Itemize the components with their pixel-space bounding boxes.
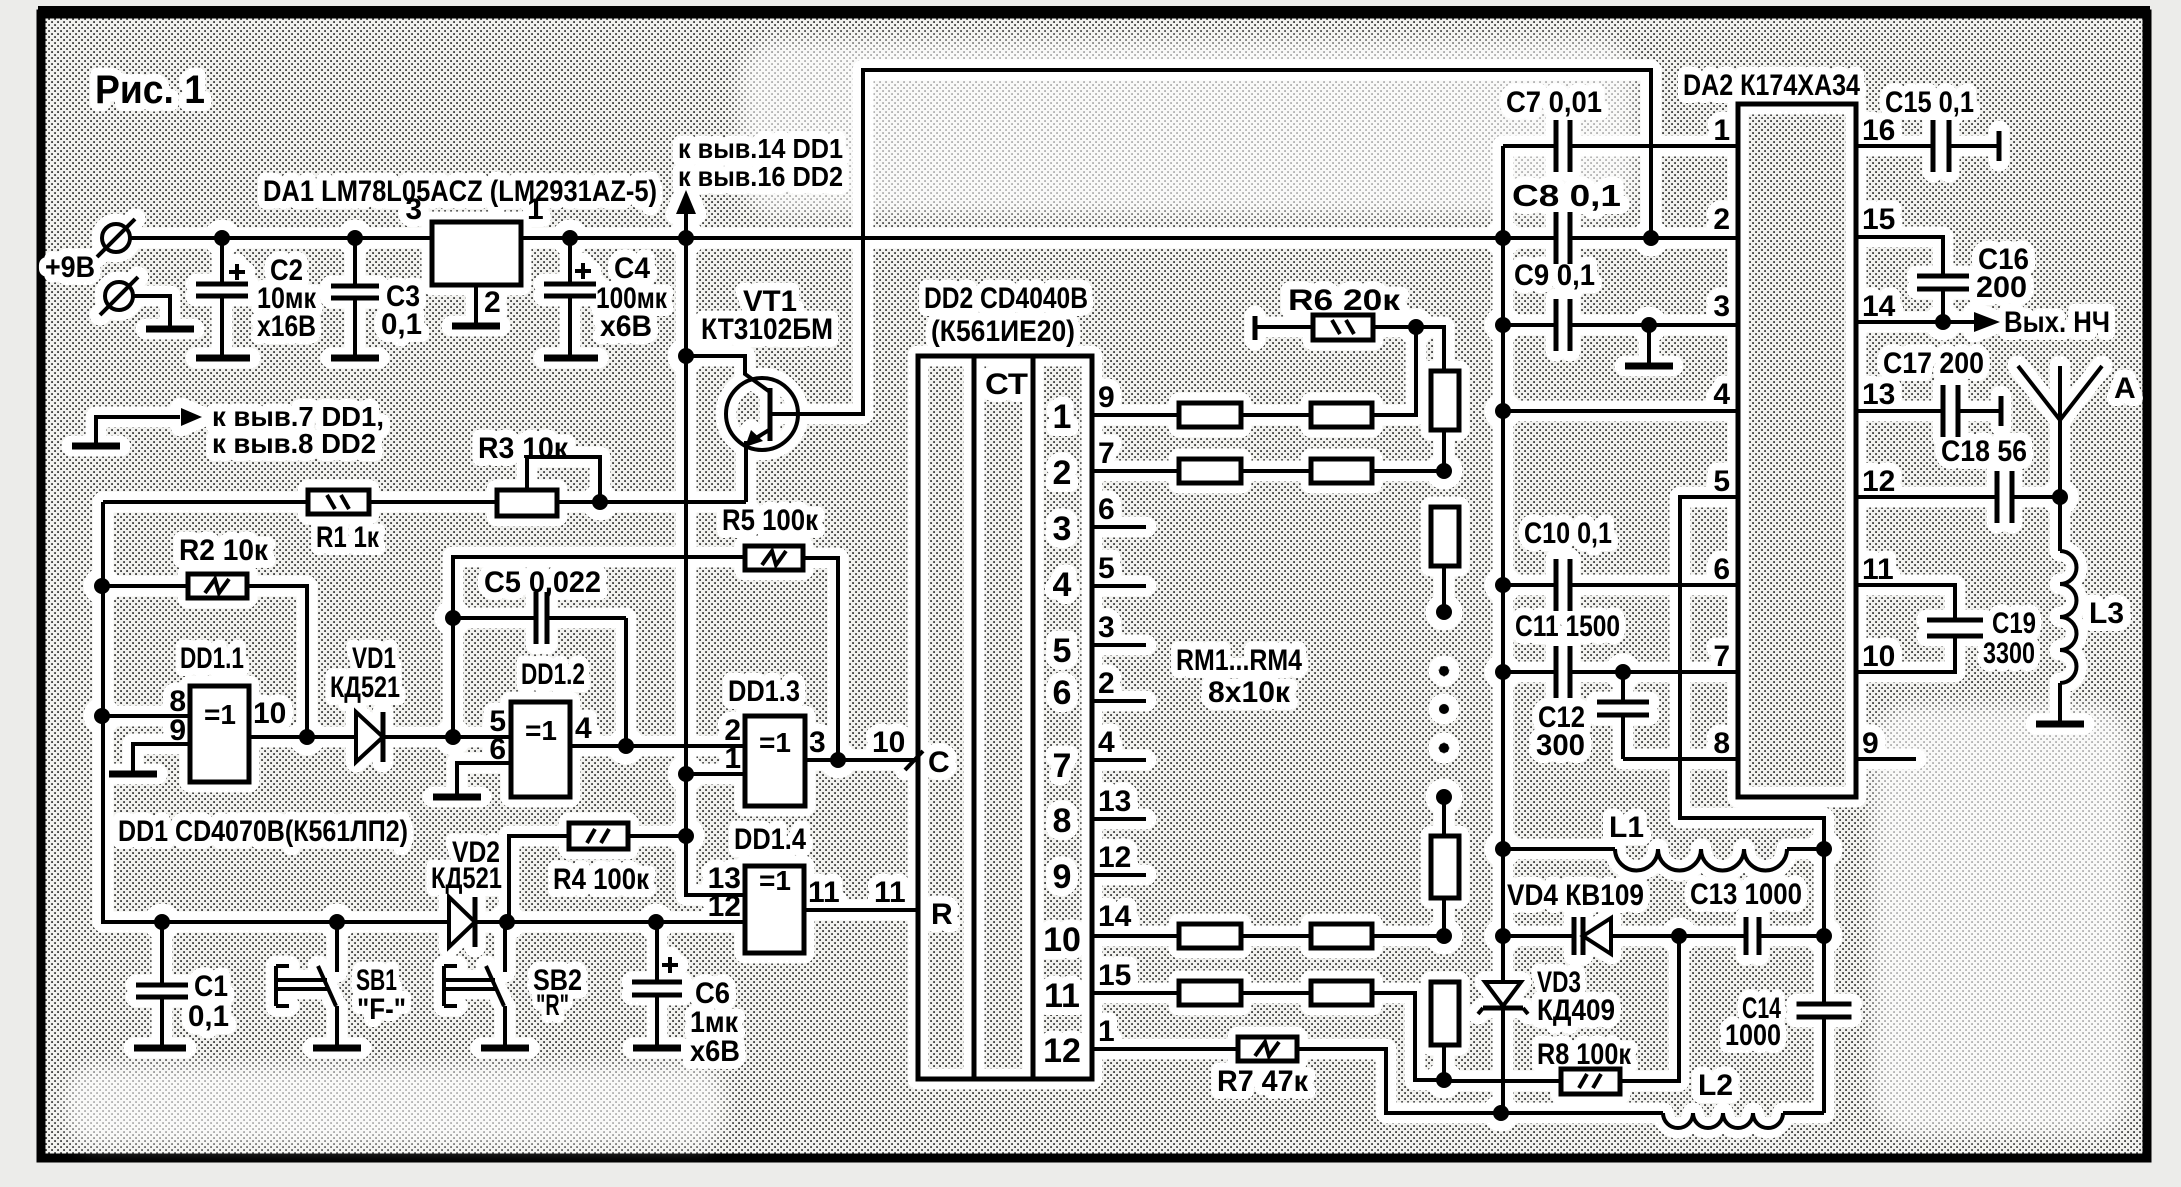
resistor R2 bbox=[188, 574, 247, 598]
svg-text:к выв.8 DD2: к выв.8 DD2 bbox=[212, 428, 376, 459]
wire DD1.1 pin8 bbox=[102, 714, 190, 718]
wire DA2 pin8 row bbox=[1623, 757, 1738, 761]
wire R5 to DD1.3 output bbox=[803, 558, 838, 760]
capacitor C15 bbox=[1931, 120, 1936, 172]
label VD1 bbox=[330, 642, 400, 704]
svg-text:11: 11 bbox=[808, 876, 840, 909]
svg-text:DA1 LM78L05ACZ (LM2931AZ-5): DA1 LM78L05ACZ (LM2931AZ-5) bbox=[263, 175, 657, 208]
capacitor C10 bbox=[1554, 559, 1559, 611]
svg-text:DD1.4: DD1.4 bbox=[734, 823, 806, 856]
svg-text:12: 12 bbox=[1043, 1032, 1081, 1070]
svg-text:13: 13 bbox=[1098, 785, 1131, 818]
ground bbox=[196, 355, 250, 362]
svg-text:=1: =1 bbox=[759, 865, 791, 896]
capacitor C7 bbox=[1554, 120, 1559, 172]
ground bbox=[331, 355, 379, 362]
antenna A bbox=[2058, 366, 2062, 497]
wire DA2 pin12 row bbox=[1856, 495, 1997, 499]
wire Q stub bbox=[1092, 584, 1146, 588]
label C14 value bbox=[1725, 992, 1781, 1052]
svg-text:3300: 3300 bbox=[1983, 637, 2035, 670]
svg-text:13: 13 bbox=[1862, 378, 1895, 411]
wire chain bottom bbox=[1442, 1045, 1446, 1080]
wire varicap row left bbox=[1503, 934, 1574, 938]
svg-text:C13 1000: C13 1000 bbox=[1690, 878, 1802, 911]
node output arrow bbox=[1974, 312, 2000, 332]
label C6 value bbox=[690, 977, 740, 1068]
connector +9V pin bbox=[97, 219, 135, 257]
svg-text:0,1: 0,1 bbox=[381, 308, 422, 341]
ground bbox=[146, 326, 194, 333]
ground bbox=[313, 1045, 361, 1052]
svg-text:2: 2 bbox=[484, 286, 501, 319]
wire DD1.3 output to DD2 clock bbox=[805, 758, 918, 762]
svg-text:к выв.14 DD1: к выв.14 DD1 bbox=[678, 133, 843, 164]
wire pin3 ground stub bbox=[1647, 325, 1651, 364]
capacitor C17 bbox=[1941, 385, 1946, 437]
svg-text:8х10к: 8х10к bbox=[1208, 676, 1291, 709]
ground bbox=[1625, 363, 1673, 370]
svg-text:1: 1 bbox=[724, 742, 741, 775]
node C15 terminal bbox=[1997, 131, 2002, 161]
label VD2 bbox=[431, 836, 502, 895]
svg-text:1: 1 bbox=[1098, 1015, 1115, 1048]
svg-text:10: 10 bbox=[1043, 921, 1081, 959]
svg-text:C17 200: C17 200 bbox=[1883, 347, 1984, 380]
svg-text:R7 47к: R7 47к bbox=[1217, 1065, 1309, 1098]
wire VD4 to C13 bbox=[1611, 934, 1746, 938]
label C2 value bbox=[257, 254, 317, 343]
svg-text:КД409: КД409 bbox=[1537, 994, 1615, 1027]
node ellipsis bbox=[1439, 666, 1449, 676]
ground bbox=[544, 355, 598, 362]
svg-text:С4: С4 bbox=[614, 252, 650, 285]
label SB2 bbox=[533, 964, 582, 1022]
resistor RM1.2 bbox=[1311, 403, 1372, 427]
wire DD1.1 output bbox=[249, 735, 356, 739]
wire Q10 row bbox=[1092, 934, 1179, 938]
svg-text:11: 11 bbox=[1044, 977, 1080, 1015]
transistor VT1 bbox=[686, 356, 798, 450]
svg-text:11: 11 bbox=[874, 876, 906, 909]
capacitor C8 bbox=[1554, 212, 1559, 264]
wire chain bbox=[1442, 898, 1446, 936]
svg-text:14: 14 bbox=[1862, 290, 1896, 323]
resistor R8 bbox=[1561, 1069, 1620, 1094]
svg-text:7: 7 bbox=[1713, 640, 1730, 673]
wire C13 to vertical bbox=[1759, 934, 1824, 938]
wire Q11 row bbox=[1092, 991, 1179, 995]
ground bbox=[633, 1045, 681, 1052]
svg-text:RM1...RM4: RM1...RM4 bbox=[1176, 644, 1302, 677]
ground bbox=[72, 443, 120, 450]
wire DA2 pin10/11 C19 branch bbox=[1856, 636, 1955, 672]
svg-text:10: 10 bbox=[872, 726, 905, 759]
svg-text:C9 0,1: C9 0,1 bbox=[1514, 259, 1595, 292]
wire VT1 base to DA2 pin2 node bbox=[770, 70, 1651, 414]
svg-text:9: 9 bbox=[1862, 727, 1879, 760]
wire Q stub bbox=[1092, 643, 1146, 647]
label VD3 value bbox=[1537, 966, 1615, 1027]
svg-text:DD1.3: DD1.3 bbox=[728, 675, 800, 708]
svg-text:12: 12 bbox=[1862, 465, 1895, 498]
svg-text:8: 8 bbox=[1053, 802, 1072, 840]
trimmer R3 bbox=[497, 490, 557, 516]
wire common tap bbox=[96, 417, 180, 444]
svg-text:DA2 К174ХА34: DA2 К174ХА34 bbox=[1683, 69, 1860, 102]
svg-text:14: 14 bbox=[1098, 900, 1132, 933]
svg-text:х16В: х16В bbox=[257, 310, 316, 343]
svg-text:"R": "R" bbox=[536, 989, 569, 1022]
wire DA2 pin13 row bbox=[1856, 409, 1943, 413]
svg-text:R5 100к: R5 100к bbox=[722, 504, 819, 537]
svg-text:C: C bbox=[928, 746, 950, 779]
svg-text:4: 4 bbox=[1713, 378, 1730, 411]
svg-text:2: 2 bbox=[1098, 667, 1115, 700]
svg-text:12: 12 bbox=[708, 890, 741, 923]
resistor RM3.2 bbox=[1311, 924, 1372, 948]
svg-text:4: 4 bbox=[575, 712, 592, 745]
label C19 value bbox=[1983, 607, 2036, 670]
connector ground pin bbox=[100, 277, 138, 315]
wire DD1.4 output to DD2 R bbox=[804, 908, 918, 912]
svg-text:С19: С19 bbox=[1992, 607, 2036, 640]
svg-text:3: 3 bbox=[809, 726, 826, 759]
svg-text:5: 5 bbox=[1713, 465, 1730, 498]
svg-text:(К561ИЕ20): (К561ИЕ20) bbox=[931, 315, 1075, 348]
resistor R6 bbox=[1253, 316, 1258, 340]
inductor L2 bbox=[1501, 1111, 1663, 1115]
wire R8 row bbox=[1444, 1079, 1561, 1083]
wire DA2 pin7 row bbox=[1503, 670, 1556, 674]
svg-text:VD4 КВ109: VD4 КВ109 bbox=[1507, 879, 1644, 912]
wire R4 right bbox=[628, 834, 686, 838]
svg-text:R3 10к: R3 10к bbox=[478, 432, 569, 465]
capacitor C3 bbox=[331, 238, 379, 356]
svg-text:5: 5 bbox=[1053, 632, 1072, 670]
svg-text:4: 4 bbox=[1098, 726, 1115, 759]
ground bbox=[2036, 721, 2084, 728]
capacitor C12 bbox=[1621, 672, 1625, 702]
svg-text:КД521: КД521 bbox=[431, 862, 502, 895]
wire R8 to C13 node bbox=[1620, 936, 1679, 1081]
wire C-bank vertical bbox=[1501, 146, 1505, 982]
capacitor C16 bbox=[1917, 274, 1969, 279]
resistor RM2.1 bbox=[1179, 459, 1241, 483]
svg-text:A: A bbox=[2114, 372, 2136, 405]
resistor R1 bbox=[308, 490, 369, 514]
svg-text:8: 8 bbox=[1713, 727, 1730, 760]
svg-text:C11 1500: C11 1500 bbox=[1515, 610, 1620, 643]
inductor L3 bbox=[2058, 497, 2062, 551]
XOR gate DD1.2 bbox=[511, 702, 570, 797]
wire DA2 pin4 row bbox=[1503, 409, 1738, 413]
svg-text:L3: L3 bbox=[2089, 597, 2124, 630]
svg-text:1: 1 bbox=[1053, 398, 1072, 436]
capacitor C19 bbox=[1927, 618, 1983, 623]
node arrow bbox=[181, 408, 202, 426]
svg-text:DD2 CD4040В: DD2 CD4040В bbox=[924, 282, 1088, 315]
wire DA1 pin 2 bbox=[474, 285, 478, 324]
wire Q stub bbox=[1092, 817, 1146, 821]
label VT1 bbox=[701, 285, 833, 346]
wire Q1 row bbox=[1092, 413, 1179, 417]
svg-text:х6В: х6В bbox=[690, 1035, 740, 1068]
resistor RM chain 4 bbox=[1431, 982, 1459, 1045]
resistor RM chain 3 bbox=[1431, 836, 1459, 898]
button SB1 bbox=[276, 922, 337, 1046]
svg-text:12: 12 bbox=[1098, 841, 1131, 874]
label C12 value bbox=[1536, 701, 1585, 762]
svg-text:6: 6 bbox=[1713, 553, 1730, 586]
node rail junctions bbox=[214, 230, 230, 246]
wire Q2 row bbox=[1092, 469, 1179, 473]
svg-text:11: 11 bbox=[1862, 553, 1894, 586]
wire Q stub bbox=[1092, 873, 1146, 877]
svg-text:C15 0,1: C15 0,1 bbox=[1885, 86, 1974, 119]
wire DA2 pin1 row bbox=[1503, 144, 1556, 148]
wire chain start bbox=[1436, 789, 1452, 805]
ground bbox=[109, 771, 157, 778]
resistor RM3.1 bbox=[1179, 924, 1241, 948]
wire VT1 emitter bbox=[746, 443, 748, 502]
capacitor C9 bbox=[1554, 299, 1559, 351]
resistor RM4.2 bbox=[1311, 981, 1372, 1005]
wire R4 left bbox=[509, 836, 569, 922]
svg-text:2: 2 bbox=[1053, 454, 1072, 492]
svg-text:7: 7 bbox=[1098, 437, 1115, 470]
svg-text:DD1.2: DD1.2 bbox=[521, 658, 585, 691]
wire DD1.2 pin6 bbox=[457, 763, 511, 795]
wire DA2 pin3 row bbox=[1503, 323, 1556, 327]
svg-text:6: 6 bbox=[1098, 493, 1115, 526]
svg-text:9: 9 bbox=[169, 714, 186, 747]
svg-text:R: R bbox=[931, 898, 953, 931]
button SB2 bbox=[444, 922, 505, 1046]
svg-text:КТ3102БМ: КТ3102БМ bbox=[701, 313, 833, 346]
svg-text:6: 6 bbox=[1053, 674, 1072, 712]
wire R2 right to DD1.1 output bbox=[247, 586, 307, 737]
ground bbox=[134, 1045, 186, 1052]
IC DA1 voltage regulator bbox=[432, 222, 521, 285]
svg-text:C7 0,01: C7 0,01 bbox=[1506, 86, 1602, 119]
svg-text:15: 15 bbox=[1098, 959, 1131, 992]
node C17 terminal bbox=[1999, 396, 2004, 426]
svg-text:R2 10к: R2 10к bbox=[179, 534, 269, 567]
wire DA2 pin14 output row bbox=[1856, 320, 1974, 324]
svg-text:1000: 1000 bbox=[1725, 1019, 1781, 1052]
wire DD1.1 pin9 bbox=[133, 744, 190, 772]
svg-text:3: 3 bbox=[1098, 611, 1115, 644]
svg-text:0,1: 0,1 bbox=[188, 1000, 229, 1033]
svg-text:300: 300 bbox=[1536, 729, 1585, 762]
svg-text:R6 20к: R6 20к bbox=[1288, 284, 1401, 317]
svg-text:=1: =1 bbox=[204, 699, 236, 730]
wire chain bbox=[1442, 430, 1446, 471]
capacitor C6 bbox=[632, 922, 682, 1046]
capacitor C18 bbox=[1995, 471, 2000, 523]
svg-text:Вых. НЧ: Вых. НЧ bbox=[2004, 306, 2110, 339]
diode VD3 bbox=[1485, 982, 1521, 1006]
svg-text:15: 15 bbox=[1862, 203, 1895, 236]
ground bbox=[481, 1045, 529, 1052]
wire +9V rail bbox=[130, 236, 1556, 240]
XOR gate DD1.1 bbox=[190, 686, 249, 782]
IC DD2 counter bbox=[918, 356, 1092, 1079]
XOR gate DD1.3 bbox=[745, 716, 805, 806]
svg-text:3: 3 bbox=[1053, 510, 1072, 548]
svg-text:C18 56: C18 56 bbox=[1941, 435, 2027, 468]
capacitor C13 bbox=[1744, 917, 1749, 955]
svg-text:1: 1 bbox=[1713, 114, 1730, 147]
resistor R7 bbox=[1238, 1037, 1297, 1061]
wire DA2 pin9 stub bbox=[1856, 757, 1916, 761]
capacitor C2 bbox=[196, 238, 248, 356]
wire +5V vertical feed bbox=[686, 238, 745, 895]
diode VD2 bbox=[449, 897, 475, 947]
node bus junctions bbox=[154, 914, 170, 930]
inductor L1 bbox=[1503, 847, 1615, 851]
capacitor C11 bbox=[1554, 646, 1559, 698]
svg-text:10: 10 bbox=[1862, 640, 1895, 673]
svg-text:200: 200 bbox=[1976, 271, 2027, 304]
label DD2 type bbox=[924, 282, 1088, 348]
svg-text:КД521: КД521 bbox=[330, 671, 400, 704]
label C1 value bbox=[188, 970, 229, 1033]
resistor R5 bbox=[745, 546, 803, 570]
label C4 value bbox=[596, 252, 668, 343]
wire C5 right to DD1.2 output bbox=[624, 618, 628, 746]
label C16 value bbox=[1976, 243, 2029, 304]
svg-text:9: 9 bbox=[1053, 858, 1072, 896]
wire DA2 pin2 rail segment bbox=[1570, 236, 1738, 240]
wire connector to ground bbox=[133, 296, 170, 327]
wire DD1.3 pin1 bbox=[686, 772, 745, 776]
svg-text:9: 9 bbox=[1098, 381, 1115, 414]
capacitor C14 bbox=[1797, 1002, 1852, 1007]
wire Q stub bbox=[1092, 699, 1146, 703]
svg-text:Рис. 1: Рис. 1 bbox=[95, 68, 205, 112]
wire bottom bus right of VD2 bbox=[475, 920, 745, 924]
wire DA2 pin15 C16 branch bbox=[1856, 237, 1943, 276]
resistor RM1.1 bbox=[1179, 403, 1241, 427]
varicap VD4 bbox=[1572, 917, 1577, 955]
diode VD1 bbox=[356, 712, 383, 762]
resistor RM chain 2 bbox=[1431, 507, 1459, 566]
svg-text:10: 10 bbox=[253, 697, 286, 730]
svg-text:3: 3 bbox=[1713, 290, 1730, 323]
svg-text:L1: L1 bbox=[1609, 811, 1644, 844]
resistor R4 bbox=[569, 823, 628, 849]
node clock edge mark bbox=[905, 751, 923, 770]
svg-text:DD1.1: DD1.1 bbox=[180, 642, 244, 675]
svg-text:х6В: х6В bbox=[600, 310, 652, 343]
svg-text:+9В: +9В bbox=[45, 251, 95, 284]
wire left vertical bbox=[103, 502, 449, 922]
svg-text:L2: L2 bbox=[1698, 1069, 1733, 1102]
svg-text:DD1 CD4070В(К561ЛП2): DD1 CD4070В(К561ЛП2) bbox=[118, 815, 408, 848]
svg-text:к выв.16 DD2: к выв.16 DD2 bbox=[678, 161, 843, 192]
capacitor C1 bbox=[160, 922, 164, 985]
capacitor C5 bbox=[453, 616, 536, 620]
svg-text:С5 0,022: С5 0,022 bbox=[484, 566, 601, 599]
resistor RM chain 1 bbox=[1431, 371, 1459, 430]
svg-text:С1: С1 bbox=[194, 970, 228, 1003]
svg-text:СТ: СТ bbox=[985, 368, 1028, 401]
svg-text:7: 7 bbox=[1053, 747, 1072, 785]
label RM1...RM4 bbox=[1176, 644, 1302, 709]
svg-text:R4 100к: R4 100к bbox=[553, 863, 650, 896]
svg-text:2: 2 bbox=[1713, 203, 1730, 236]
wire Q stub bbox=[1092, 758, 1146, 762]
ground bbox=[433, 794, 481, 801]
wire VD1 to DD1.2 pin5 bbox=[383, 735, 511, 739]
wire DD1.2 output to DD1.3 pin2 bbox=[570, 744, 745, 748]
svg-text:3: 3 bbox=[405, 193, 422, 226]
svg-text:4: 4 bbox=[1053, 566, 1072, 604]
svg-text:R1 1к: R1 1к bbox=[316, 521, 380, 554]
IC DA2 bbox=[1738, 104, 1856, 797]
resistor RM4.1 bbox=[1179, 981, 1241, 1005]
resistor RM2.2 bbox=[1311, 459, 1372, 483]
svg-text:C10 0,1: C10 0,1 bbox=[1524, 517, 1612, 550]
wire DA2 pin5 branch bbox=[1680, 497, 1824, 1004]
wire chain end bbox=[1442, 566, 1446, 612]
svg-text:5: 5 bbox=[1098, 552, 1115, 585]
svg-text:=1: =1 bbox=[759, 727, 791, 758]
XOR gate DD1.4 bbox=[745, 866, 804, 953]
label C3 value bbox=[381, 280, 422, 341]
svg-text:1: 1 bbox=[527, 193, 544, 226]
wire R2 left bbox=[102, 584, 188, 588]
svg-text:"F-": "F-" bbox=[357, 993, 406, 1026]
wire DA2 pin16 row bbox=[1856, 144, 1933, 148]
svg-text:R8 100к: R8 100к bbox=[1537, 1038, 1632, 1071]
wire Q12 row bbox=[1092, 1047, 1238, 1051]
wire +5V to DD1/DD2 power arrow bbox=[684, 205, 688, 238]
capacitor C4 bbox=[544, 238, 596, 356]
ground bbox=[452, 323, 500, 330]
wire R1-R3 row bbox=[103, 500, 308, 504]
svg-text:C8 0,1: C8 0,1 bbox=[1512, 178, 1621, 213]
wire Q stub bbox=[1092, 525, 1146, 529]
label SB1 bbox=[356, 964, 406, 1026]
wire C5 left branch / R5 row bbox=[453, 557, 745, 737]
wire DA2 pin6 row bbox=[1503, 583, 1556, 587]
node junctions on vertical bbox=[678, 348, 694, 364]
svg-text:=1: =1 bbox=[525, 715, 557, 746]
